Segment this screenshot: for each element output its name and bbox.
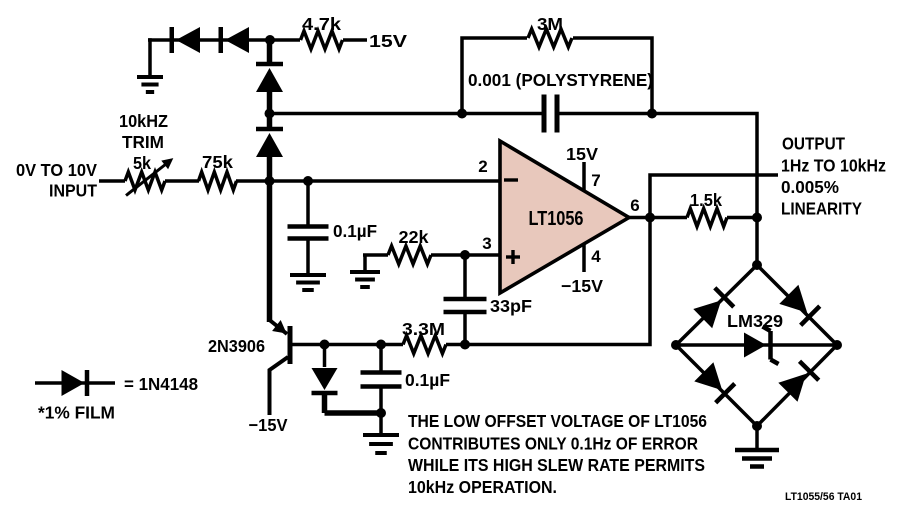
svg-text:LT1055/56 TA01: LT1055/56 TA01 bbox=[785, 491, 862, 503]
wire J10 to op-amp pin3 bbox=[465, 253, 500, 257]
capacitor C3 0.1µF bbox=[379, 345, 383, 373]
wire J6 to right drop bbox=[652, 114, 757, 217]
node J12 (diode tap) bbox=[320, 340, 330, 350]
svg-text:4: 4 bbox=[591, 247, 601, 266]
op-amp plus sign bbox=[506, 255, 520, 258]
diode D6 (bridge upper-left) bbox=[693, 300, 721, 328]
svg-text:10kHZ: 10kHZ bbox=[119, 111, 168, 131]
svg-text:7: 7 bbox=[591, 171, 600, 190]
svg-text:6: 6 bbox=[630, 196, 639, 215]
wire input to pot bbox=[99, 179, 125, 183]
node bridge left bbox=[671, 340, 681, 350]
ground G3 (22k) bbox=[350, 270, 380, 274]
svg-text:2: 2 bbox=[478, 157, 487, 176]
svg-text:−15V: −15V bbox=[249, 415, 288, 435]
node bridge right bbox=[832, 340, 842, 350]
wire bridge edge L-B bbox=[676, 345, 757, 426]
svg-text:= 1N4148: = 1N4148 bbox=[124, 374, 198, 394]
svg-text:15V: 15V bbox=[369, 31, 407, 51]
node J2 (inverting input node) bbox=[265, 109, 275, 119]
capacitor C1 0.1µF stem top bbox=[306, 181, 310, 226]
node bridge top bbox=[752, 260, 762, 270]
op-amp minus sign bbox=[504, 178, 518, 181]
node J14 (clamp ground) bbox=[376, 408, 386, 418]
svg-text:75k: 75k bbox=[202, 152, 233, 172]
resistor R5 22k bbox=[388, 246, 431, 264]
wire J4 to op-amp pin2 bbox=[308, 179, 500, 183]
transistor Q1 emitter bbox=[267, 181, 273, 322]
svg-text:LM329: LM329 bbox=[727, 311, 783, 331]
svg-text:0.005%: 0.005% bbox=[781, 177, 839, 197]
svg-text:3M: 3M bbox=[537, 14, 563, 34]
op-amp pin7 stub bbox=[582, 162, 586, 190]
node J11 (33pF tap) bbox=[460, 340, 470, 350]
wire R4 to J8 bbox=[727, 216, 757, 220]
node J6 (feedback right) bbox=[647, 109, 657, 119]
svg-text:5k: 5k bbox=[133, 153, 151, 173]
wire base line bbox=[292, 343, 403, 347]
svg-text:3.3M: 3.3M bbox=[402, 319, 445, 339]
wire zener net bbox=[676, 343, 837, 347]
diode D4 (1N4148, rail lower) bbox=[256, 127, 283, 132]
svg-text:0.1µF: 0.1µF bbox=[333, 221, 377, 241]
wire R1 to 15V bbox=[343, 38, 367, 42]
diode D8 (bridge lower-left) bbox=[694, 362, 722, 390]
node bridge bottom bbox=[752, 421, 762, 431]
svg-text:LINEARITY: LINEARITY bbox=[781, 199, 862, 219]
svg-text:LT1056: LT1056 bbox=[529, 208, 584, 230]
op-amp pin4 stub bbox=[582, 244, 586, 272]
legend diode symbol bbox=[35, 381, 115, 385]
svg-text:*1% FILM: *1% FILM bbox=[38, 403, 115, 423]
wire feedback loop right riser bbox=[573, 38, 652, 114]
svg-text:0.1µF: 0.1µF bbox=[405, 370, 450, 390]
resistor R6 3.3M bbox=[403, 336, 446, 354]
svg-text:1.5k: 1.5k bbox=[690, 190, 722, 210]
svg-text:WHILE ITS HIGH SLEW RATE PERMI: WHILE ITS HIGH SLEW RATE PERMITS bbox=[408, 455, 705, 475]
node J3 (input/rail junction) bbox=[265, 176, 275, 186]
capacitor C4 33pF stem top bbox=[463, 255, 467, 299]
wire heavy rail D4-J3 bbox=[267, 155, 273, 181]
diode D7 (bridge upper-right) bbox=[779, 285, 807, 313]
wire J1 to R1 bbox=[270, 38, 300, 42]
diode D3 (1N4148, rail upper) bbox=[256, 62, 283, 67]
node J4 (C1 tap) bbox=[303, 176, 313, 186]
capacitor C1 stem bottom + ground G2 bbox=[306, 239, 310, 276]
op-amp U1 LT1056 bbox=[500, 141, 629, 293]
zener Z1 LM329 bbox=[744, 333, 766, 358]
wire 3.3M to pin6 riser bbox=[446, 218, 650, 345]
svg-text:10kHz OPERATION.: 10kHz OPERATION. bbox=[408, 477, 557, 497]
transistor Q1 2N3906 bar bbox=[288, 326, 293, 364]
wire bridge edge T-R bbox=[757, 265, 837, 345]
diode D9 (bridge lower-right) bbox=[778, 374, 806, 402]
svg-text:15V: 15V bbox=[566, 144, 598, 164]
svg-text:1Hz TO 10kHz: 1Hz TO 10kHz bbox=[781, 156, 886, 176]
wire 22k to J10 bbox=[431, 253, 465, 257]
node J1 (top of diode string) bbox=[265, 35, 275, 45]
wire heavy rail J1-D3 bbox=[267, 40, 273, 62]
node J13 (C3 tap) bbox=[376, 340, 386, 350]
wire R2 to J3 bbox=[236, 179, 269, 183]
wire bridge edge L-T bbox=[676, 265, 757, 345]
svg-text:THE LOW OFFSET VOLTAGE OF LT10: THE LOW OFFSET VOLTAGE OF LT1056 bbox=[408, 411, 707, 431]
wire feedback loop left riser bbox=[462, 38, 527, 114]
wire G3 corner to 22k bbox=[363, 253, 388, 257]
svg-text:0.001 (POLYSTYRENE): 0.001 (POLYSTYRENE) bbox=[468, 70, 653, 90]
resistor R4 1.5k bbox=[687, 209, 727, 227]
svg-text:22k: 22k bbox=[399, 227, 429, 247]
wire pin6 to J7 bbox=[629, 216, 650, 220]
svg-text:−15V: −15V bbox=[561, 276, 603, 296]
wire bottom clamp bbox=[325, 410, 382, 416]
wire C2 to J6 bbox=[559, 112, 652, 116]
transistor Q1 collector bbox=[270, 357, 289, 415]
node J8 (bridge feed) bbox=[752, 213, 762, 223]
wire J3 to J4 bbox=[270, 179, 309, 183]
wire J5 to C2 bbox=[462, 112, 543, 116]
wire pot to R2 bbox=[165, 179, 199, 183]
ground G5 (bridge) bbox=[755, 426, 759, 450]
svg-text:33pF: 33pF bbox=[490, 296, 532, 316]
wire J7 to R4 bbox=[650, 216, 687, 220]
capacitor C2 0.001 polystyrene bbox=[542, 95, 547, 133]
svg-text:0V TO 10V: 0V TO 10V bbox=[16, 160, 97, 180]
wire top-left horizontal bbox=[148, 38, 270, 42]
diode D5 (1N4148, base clamp) bbox=[323, 345, 327, 368]
wire 22k ground corner bbox=[363, 255, 367, 272]
svg-text:TRIM: TRIM bbox=[122, 132, 164, 152]
ground G4 (clamp) bbox=[379, 413, 383, 435]
diode D2 (1N4148, top clamp right) bbox=[225, 27, 249, 53]
node J5 (feedback left) bbox=[457, 109, 467, 119]
capacitor C4 stem bottom bbox=[463, 312, 467, 345]
svg-text:INPUT: INPUT bbox=[49, 181, 97, 201]
wire J8 to bridge top bbox=[755, 218, 759, 266]
node J7 (op-amp output) bbox=[645, 213, 655, 223]
capacitor C1 0.1µF bbox=[288, 224, 329, 229]
svg-text:3: 3 bbox=[482, 234, 491, 253]
ground G1 (diode clamp) bbox=[148, 38, 152, 77]
svg-text:4.7k: 4.7k bbox=[302, 14, 341, 34]
wire J2 to feedback loop bbox=[270, 112, 463, 116]
resistor R1 4.7k bbox=[301, 31, 343, 49]
svg-text:CONTRIBUTES ONLY 0.1Hz OF ERRO: CONTRIBUTES ONLY 0.1Hz OF ERROR bbox=[408, 434, 698, 454]
capacitor C4 33pF bbox=[444, 297, 487, 302]
node J10 (pin3 node) bbox=[460, 250, 470, 260]
resistor R3 3M bbox=[528, 29, 572, 47]
svg-text:2N3906: 2N3906 bbox=[208, 336, 265, 356]
wire heavy rail D3-J2 bbox=[267, 90, 273, 114]
wire bridge edge B-R bbox=[757, 345, 837, 426]
resistor R2 75k bbox=[199, 172, 237, 190]
potentiometer 5k (10kHz trim) bbox=[125, 172, 165, 190]
diode D1 (1N4148, top clamp left) bbox=[176, 27, 200, 53]
svg-text:OUTPUT: OUTPUT bbox=[782, 134, 845, 154]
wire output tap bbox=[650, 175, 778, 218]
wire heavy rail J2-D4 bbox=[267, 114, 273, 128]
